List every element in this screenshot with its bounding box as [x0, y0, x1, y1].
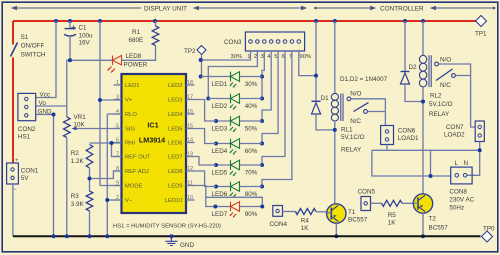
- svg-text:3.9K: 3.9K: [71, 201, 85, 208]
- wire R2 top to RHI and REF OUT: [90, 143, 122, 157]
- diode D1 1N4007: [312, 21, 335, 130]
- svg-text:−: −: [13, 187, 17, 193]
- svg-text:CON8: CON8: [449, 189, 467, 196]
- svg-text:3: 3: [261, 54, 264, 60]
- potentiometer VR1: [64, 117, 71, 138]
- svg-text:LED7: LED7: [168, 155, 183, 161]
- svg-text:C1: C1: [79, 25, 88, 32]
- svg-text:18: 18: [187, 80, 193, 86]
- svg-text:230V AC: 230V AC: [449, 197, 474, 204]
- svg-text:S1: S1: [21, 34, 29, 41]
- svg-text:17: 17: [187, 94, 193, 100]
- svg-text:LED5: LED5: [168, 127, 183, 133]
- svg-text:V+: V+: [125, 98, 133, 104]
- svg-text:90%: 90%: [245, 211, 258, 218]
- TP1 test point: [475, 16, 487, 38]
- svg-text:SIG: SIG: [125, 127, 135, 133]
- svg-text:RELAY: RELAY: [429, 111, 450, 118]
- relay RL1 contacts: [347, 91, 385, 126]
- svg-text:RL1: RL1: [341, 126, 353, 133]
- connector CON4: [270, 206, 288, 229]
- svg-text:LED1: LED1: [212, 81, 228, 88]
- svg-text:1.2K: 1.2K: [71, 158, 85, 165]
- diode D2 1N4007: [401, 21, 424, 102]
- svg-text:12: 12: [187, 166, 193, 172]
- svg-text:9: 9: [116, 180, 119, 186]
- svg-text:13: 13: [187, 151, 193, 157]
- svg-text:L: L: [455, 160, 459, 167]
- svg-text:DISPLAY UNIT: DISPLAY UNIT: [144, 5, 187, 12]
- svg-text:CON4: CON4: [270, 221, 288, 228]
- LED LED3: [212, 116, 263, 132]
- svg-text:10: 10: [187, 195, 193, 201]
- LED8 power indicator: [108, 56, 122, 73]
- svg-text:6: 6: [116, 137, 119, 143]
- resistor R1: [155, 21, 157, 26]
- wire RLO / V- to ground: [107, 114, 121, 236]
- svg-text:REF OUT: REF OUT: [125, 155, 151, 161]
- controller arrow left segment: [314, 6, 375, 9]
- red wire to S1: [12, 21, 14, 45]
- wire pin17 to LED3: [195, 100, 217, 122]
- wire pin12 to LED6: [195, 171, 217, 187]
- svg-text:LED8: LED8: [126, 53, 142, 60]
- svg-text:1: 1: [116, 80, 119, 86]
- svg-text:5V: 5V: [21, 175, 30, 182]
- svg-text:LED4: LED4: [168, 112, 183, 118]
- svg-text:POWER: POWER: [124, 62, 148, 69]
- svg-text:N: N: [464, 160, 469, 167]
- svg-text:SWITCH: SWITCH: [21, 52, 46, 59]
- svg-text:BC557: BC557: [429, 225, 449, 232]
- LED LED6: [212, 182, 263, 198]
- resistor R4: [283, 211, 296, 213]
- svg-text:IC1: IC1: [147, 121, 158, 130]
- connector CON8 230V: [449, 160, 474, 212]
- wire CON3 pin3 to LED1/LED2 right: [262, 51, 264, 99]
- svg-text:LED7: LED7: [212, 211, 228, 218]
- svg-text:R1: R1: [132, 29, 141, 36]
- LED LED5: [212, 160, 263, 176]
- IC IC1 LM3914 bar-graph driver: [114, 74, 195, 213]
- wire CON3 pin4 to LED3 right: [262, 51, 271, 121]
- svg-text:50%: 50%: [245, 126, 258, 133]
- svg-text:LED3: LED3: [168, 98, 183, 104]
- svg-text:LED9: LED9: [168, 184, 183, 190]
- svg-text:CON1: CON1: [21, 168, 39, 175]
- red wire S1 to CON1: [12, 58, 14, 163]
- svg-text:RLO: RLO: [125, 112, 137, 118]
- connector CON3: [224, 32, 305, 51]
- svg-text:T2: T2: [429, 216, 437, 223]
- svg-text:5V,1C/O: 5V,1C/O: [341, 134, 365, 141]
- svg-text:TP0: TP0: [483, 226, 495, 233]
- LED LED2: [208, 94, 262, 110]
- +5V red bus: [13, 20, 481, 22]
- junction nodes on +5V bus: [54, 19, 58, 23]
- svg-text:V−: V−: [125, 198, 133, 204]
- svg-text:D2: D2: [409, 64, 418, 71]
- transistor T1 BC557: [327, 204, 368, 237]
- connector CON1 5V: [7, 158, 39, 236]
- connector CON5: [358, 189, 376, 211]
- svg-text:RHI: RHI: [125, 141, 135, 147]
- svg-text:TP2: TP2: [184, 48, 196, 55]
- resistor R2: [86, 145, 93, 169]
- svg-text:Vcc: Vcc: [40, 91, 51, 98]
- svg-text:1K: 1K: [388, 220, 397, 227]
- svg-text:D1: D1: [321, 95, 330, 102]
- svg-text:4: 4: [116, 109, 119, 115]
- svg-text:BC557: BC557: [348, 217, 368, 224]
- test point TP2: [197, 46, 206, 55]
- svg-text:6: 6: [282, 54, 285, 60]
- svg-text:50Hz: 50Hz: [449, 205, 464, 212]
- svg-text:16: 16: [187, 109, 193, 115]
- connector CON6 LOAD1: [381, 126, 419, 145]
- wire CON3 pin7 to LED6 right: [262, 51, 292, 187]
- LED LED7: [212, 202, 263, 218]
- svg-text:11: 11: [187, 180, 193, 186]
- relay RL2 coil: [419, 21, 452, 194]
- svg-text:HS1: HS1: [18, 133, 31, 140]
- controller arrow right segment: [431, 6, 495, 9]
- LED LED4: [212, 139, 263, 155]
- svg-text:30%: 30%: [245, 81, 258, 88]
- svg-text:+: +: [15, 158, 19, 164]
- svg-text:LED10: LED10: [165, 198, 183, 204]
- transistor T2 BC557: [413, 194, 448, 237]
- resistor R3: [86, 191, 93, 211]
- svg-text:R5: R5: [388, 212, 397, 219]
- LED LED1: [201, 72, 262, 88]
- svg-text:LED6: LED6: [168, 141, 183, 147]
- svg-text:Vo: Vo: [39, 100, 47, 107]
- relay RL2 contacts: [435, 57, 476, 128]
- svg-text:14: 14: [187, 137, 193, 143]
- svg-text:7: 7: [116, 151, 119, 157]
- svg-text:15: 15: [187, 123, 193, 129]
- svg-text:680E: 680E: [129, 37, 144, 44]
- VR1 wiper to SIG: [73, 128, 122, 130]
- svg-text:N/O: N/O: [350, 91, 361, 98]
- svg-text:N/C: N/C: [350, 118, 361, 125]
- svg-text:CON2: CON2: [18, 126, 36, 133]
- svg-text:GND: GND: [38, 108, 52, 115]
- svg-text:16V: 16V: [79, 40, 91, 47]
- svg-text:1K: 1K: [301, 225, 310, 232]
- svg-text:VR1: VR1: [74, 114, 87, 121]
- switch S1: [11, 43, 18, 57]
- capacitor C1: [64, 21, 93, 60]
- svg-text:CON7: CON7: [446, 124, 464, 131]
- svg-text:CONTROLLER: CONTROLLER: [380, 5, 424, 12]
- node C1 bottom: [68, 58, 72, 62]
- wire CON3 pin5 to LED4 right: [262, 51, 278, 144]
- svg-text:MODE: MODE: [125, 184, 143, 190]
- svg-text:100u: 100u: [79, 33, 94, 40]
- svg-text:CON3: CON3: [224, 39, 242, 46]
- svg-text:LED3: LED3: [212, 126, 228, 133]
- svg-text:N/C: N/C: [440, 82, 451, 89]
- svg-text:T1: T1: [348, 209, 356, 216]
- ground symbol: [165, 236, 177, 245]
- svg-text:60%: 60%: [245, 148, 258, 155]
- resistor R5: [371, 202, 382, 204]
- wire CON3 pin6 to LED5 right: [262, 51, 285, 165]
- svg-text:N/O: N/O: [440, 57, 451, 64]
- svg-text:D1,D2 = 1N4007: D1,D2 = 1N4007: [340, 76, 388, 83]
- svg-text:ON/OFF: ON/OFF: [21, 43, 45, 50]
- wire V+ and MODE from +5V: [100, 21, 122, 186]
- svg-text:LOAD2: LOAD2: [444, 132, 465, 139]
- wire pin13 to LED5: [195, 157, 217, 166]
- svg-text:LM3914: LM3914: [139, 136, 165, 145]
- svg-text:40%: 40%: [245, 103, 258, 110]
- svg-text:3: 3: [116, 94, 119, 100]
- wire CON3 pin1 to LED1 left / TP2: [200, 51, 250, 77]
- display unit arrow left segment: [12, 6, 141, 9]
- wire CON3 pin8 to +5V: [299, 51, 316, 76]
- svg-text:HS1 = HUMIDITY SENSOR (SY-HS-2: HS1 = HUMIDITY SENSOR (SY-HS-220): [113, 224, 221, 230]
- ground bus: [13, 235, 481, 237]
- wire pin15 to LED4: [195, 129, 217, 144]
- svg-text:8: 8: [116, 166, 119, 172]
- wire CON3 pin2 to LED2 left: [208, 51, 257, 99]
- svg-text:LED2: LED2: [212, 103, 228, 110]
- svg-text:R3: R3: [71, 193, 80, 200]
- CON3 pin labels: [231, 54, 312, 60]
- ground bus junction nodes: [52, 234, 56, 238]
- svg-text:LED4: LED4: [212, 148, 228, 155]
- svg-text:LOAD1: LOAD1: [398, 135, 419, 142]
- svg-text:70%: 70%: [245, 170, 258, 177]
- test point TP0 ground: [482, 231, 493, 242]
- svg-text:RL2: RL2: [430, 93, 442, 100]
- svg-text:R2: R2: [71, 150, 80, 157]
- connector CON2 HS1: [18, 21, 67, 236]
- svg-text:2: 2: [254, 54, 257, 60]
- svg-text:LED5: LED5: [212, 170, 228, 177]
- svg-text:LED1: LED1: [125, 83, 140, 89]
- svg-text:CON6: CON6: [398, 127, 416, 134]
- svg-text:LED2: LED2: [168, 83, 183, 89]
- svg-text:5: 5: [116, 123, 119, 129]
- display unit arrow right segment: [194, 6, 306, 9]
- svg-text:R4: R4: [301, 218, 310, 225]
- relay RL1 coil: [331, 21, 364, 204]
- svg-text:90%: 90%: [300, 54, 312, 60]
- mains wiring: [372, 142, 480, 177]
- wire pin11 to LED7: [195, 186, 263, 207]
- svg-text:30%: 30%: [231, 54, 243, 60]
- svg-text:GND: GND: [180, 242, 194, 249]
- svg-text:CON5: CON5: [358, 189, 376, 196]
- svg-text:5: 5: [274, 54, 277, 60]
- wire LED8 to R1: [122, 46, 156, 61]
- svg-text:RELAY: RELAY: [341, 147, 362, 154]
- connector CON7 LOAD2: [444, 121, 484, 142]
- svg-text:REF ADJ: REF ADJ: [125, 169, 149, 175]
- svg-text:5V,1C/O: 5V,1C/O: [429, 101, 453, 108]
- svg-text:TP1: TP1: [475, 31, 487, 38]
- svg-text:2: 2: [116, 195, 119, 201]
- wire C1/LED8/Vo node: [67, 60, 70, 117]
- svg-text:LED8: LED8: [168, 169, 183, 175]
- wire R2/R3 node to REF ADJ: [90, 171, 122, 179]
